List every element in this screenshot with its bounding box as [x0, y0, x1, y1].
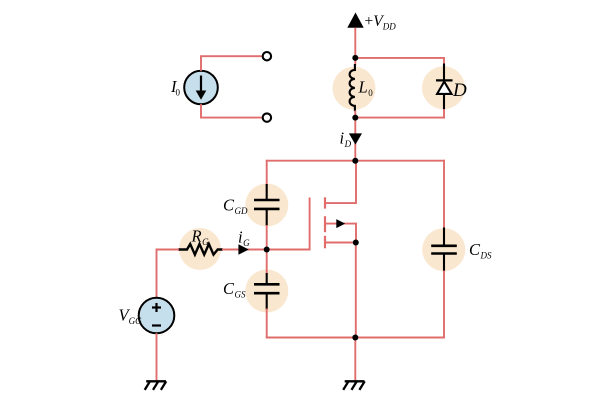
ground (V_GG)	[145, 381, 167, 390]
wire C_GS to bottom rail	[266, 309, 268, 339]
svg-text:D: D	[452, 80, 467, 101]
wire I0 top to terminal	[201, 56, 263, 71]
wire C_GD branch top	[266, 160, 268, 186]
transistor Q1 gate bar	[309, 198, 311, 251]
wire node B to diode branch	[355, 117, 445, 119]
ground (main)	[343, 381, 365, 390]
wire node B to drain rail	[354, 111, 356, 162]
diode D	[436, 64, 453, 111]
wire gate node to C_GS	[266, 250, 268, 275]
minus sign inside V_GG	[152, 324, 161, 326]
label i_D	[340, 129, 352, 150]
svg-text:I0: I0	[170, 77, 181, 98]
wire C_GD to gate node	[266, 225, 268, 251]
wire body stub	[325, 224, 356, 243]
node E junction dot (bottom rail / ground)	[352, 335, 358, 341]
svg-text:iD: iD	[340, 129, 352, 150]
label C_GD	[223, 196, 248, 217]
wire V_GG to ground	[156, 333, 158, 381]
highlight circle behind C_DS	[422, 228, 465, 271]
label C_DS	[469, 240, 492, 261]
label D	[452, 80, 467, 101]
highlight circle behind diode D	[422, 66, 465, 109]
label V_GG	[119, 306, 143, 327]
label I_0	[170, 77, 181, 98]
current source I0	[184, 71, 218, 105]
label R_G	[191, 227, 210, 248]
node C junction dot (top rail / drain)	[352, 158, 358, 164]
plus sign inside V_GG	[152, 303, 161, 312]
wire VDD to node A	[354, 28, 356, 66]
capacitor C_GS	[254, 273, 280, 310]
power symbol +VDD	[347, 13, 363, 28]
wire drain stub	[325, 161, 356, 203]
wire C_DS branch top	[443, 160, 445, 229]
label +V_DD	[365, 13, 397, 32]
node A junction dot (VDD / L0 / diode top)	[352, 55, 358, 61]
current arrow i_D	[349, 133, 362, 144]
node S junction dot (source)	[353, 240, 359, 246]
capacitor C_DS	[431, 228, 457, 272]
voltage source V_GG	[139, 298, 175, 334]
capacitor C_GD	[254, 184, 280, 226]
svg-text:+VDD: +VDD	[365, 13, 397, 32]
label C_GS	[223, 279, 246, 300]
wire diode branch top	[443, 57, 445, 65]
transistor Q1 channel segments	[324, 197, 326, 248]
resistor R_G	[178, 244, 223, 255]
wire bottom rail to ground	[354, 338, 356, 382]
wire source stub	[325, 242, 356, 244]
wire source down to bottom rail	[355, 243, 357, 339]
svg-text:iG: iG	[238, 228, 250, 249]
highlight circle behind R_G	[179, 228, 221, 270]
wire V_GG to R_G	[157, 250, 180, 298]
wire R_G to gate node	[222, 249, 267, 251]
wire C_DS to bottom rail	[443, 271, 445, 339]
wire node A to diode branch	[355, 57, 444, 59]
node G junction dot (gate node)	[264, 247, 270, 253]
svg-text:VGG: VGG	[119, 306, 143, 327]
label i_G	[238, 228, 250, 249]
wire diode branch bottom	[443, 109, 445, 119]
terminal (open circle, top)	[263, 52, 271, 60]
svg-text:CDS: CDS	[469, 240, 492, 261]
wire top rail	[266, 160, 445, 162]
svg-text:CGD: CGD	[223, 196, 248, 217]
current arrow i_G	[238, 244, 248, 255]
wire I0 bottom to terminal	[201, 104, 263, 118]
highlight circle behind C_GS	[245, 270, 288, 313]
label L_0	[358, 78, 374, 99]
svg-text:CGS: CGS	[223, 279, 246, 300]
node B junction dot (L0 bottom / diode bottom)	[352, 115, 358, 121]
terminal (open circle, bottom)	[263, 113, 271, 121]
arrow inside I0	[196, 76, 207, 100]
inductor L0	[350, 64, 355, 111]
wire bottom rail	[266, 337, 445, 339]
transistor Q1 body arrow	[336, 219, 345, 228]
highlight circle behind L0	[333, 67, 376, 110]
wire gate node to gate bar	[267, 249, 311, 251]
highlight circle behind C_GD	[245, 184, 288, 227]
